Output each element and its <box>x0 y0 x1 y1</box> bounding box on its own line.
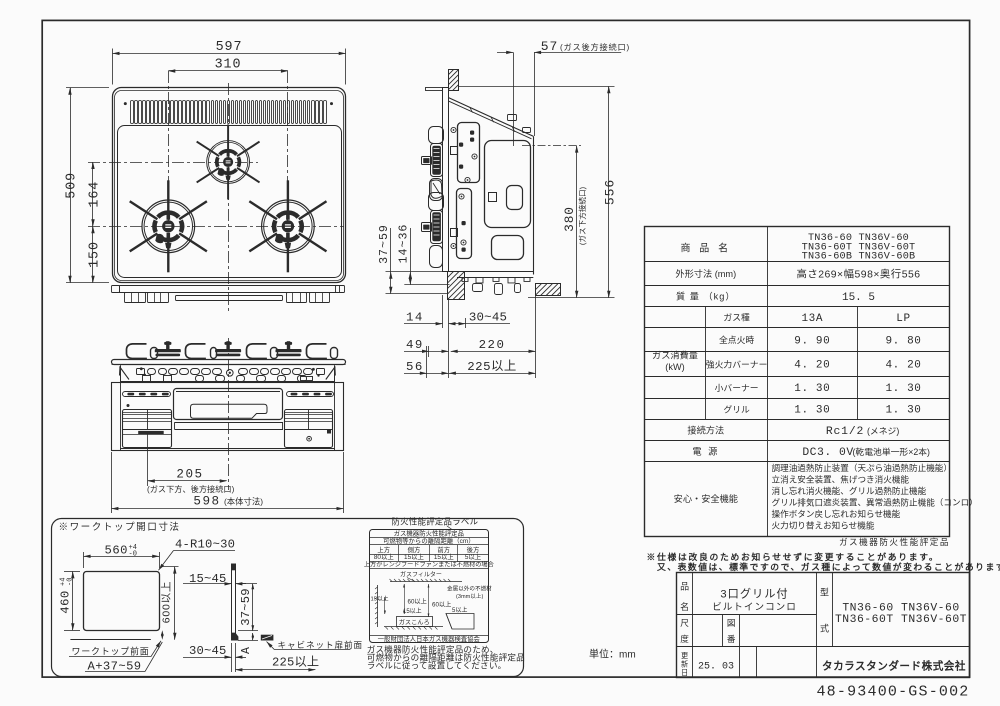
svg-text:TN36-60 TN36V-60: TN36-60 TN36V-60 <box>842 603 959 615</box>
svg-text:56: 56 <box>406 360 424 374</box>
svg-text:9. 90: 9. 90 <box>794 336 830 348</box>
svg-text:(メネジ): (メネジ) <box>867 426 899 436</box>
svg-text:接続方法: 接続方法 <box>687 425 724 436</box>
svg-text:高さ269×幅598×奥行556: 高さ269×幅598×奥行556 <box>796 268 920 281</box>
svg-text:グリル: グリル <box>723 404 750 415</box>
svg-text:15以上: 15以上 <box>371 595 389 603</box>
svg-text:48-93400-GS-002: 48-93400-GS-002 <box>816 684 969 701</box>
svg-text:番: 番 <box>727 633 736 644</box>
svg-text:又、表数値は、標準ですので、ガス種によって数値が変わることが: 又、表数値は、標準ですので、ガス種によって数値が変わることがあります。 <box>657 561 1000 572</box>
svg-text:380: 380 <box>562 206 577 232</box>
svg-text:※仕様は改良のためお知らせせずに変更することがあります。: ※仕様は改良のためお知らせせずに変更することがあります。 <box>647 551 940 562</box>
svg-text:5以上: 5以上 <box>452 606 467 614</box>
svg-text:日: 日 <box>681 668 688 677</box>
svg-text:560: 560 <box>105 544 128 558</box>
svg-text:調理油過熱防止装置（天ぷら油過熱防止機能）: 調理油過熱防止装置（天ぷら油過熱防止機能） <box>772 462 952 473</box>
svg-text:A: A <box>240 647 253 654</box>
svg-text:ガス消費量: ガス消費量 <box>652 350 698 361</box>
svg-text:30~45: 30~45 <box>469 311 507 325</box>
svg-text:小バーナー: 小バーナー <box>715 383 759 393</box>
svg-text:防火性能評定品ラベル: 防火性能評定品ラベル <box>392 517 479 527</box>
svg-text:型: 型 <box>820 588 829 598</box>
svg-text:30~45: 30~45 <box>189 644 227 658</box>
svg-text:グリル排気口遮炎装置、異常過熱防止機能（コンロ）: グリル排気口遮炎装置、異常過熱防止機能（コンロ） <box>772 497 978 508</box>
svg-text:消し忘れ消火機能、グリル過熱防止機能: 消し忘れ消火機能、グリル過熱防止機能 <box>772 485 927 496</box>
svg-text:TN36-60T TN36V-60T: TN36-60T TN36V-60T <box>835 614 967 626</box>
svg-text:15以上: 15以上 <box>404 552 424 561</box>
svg-text:3口グリル付: 3口グリル付 <box>720 587 788 601</box>
svg-text:図: 図 <box>727 618 736 628</box>
svg-text:5以上: 5以上 <box>465 552 482 561</box>
svg-text:49: 49 <box>406 338 424 352</box>
svg-text:商 品 名: 商 品 名 <box>681 242 732 255</box>
svg-text:上方がレンジフードファンまたは不燃材の場合: 上方がレンジフードファンまたは不燃材の場合 <box>364 560 494 568</box>
svg-text:(3mm以上): (3mm以上) <box>456 592 483 600</box>
svg-text:1. 30: 1. 30 <box>885 383 921 395</box>
svg-text:操作ボタン戻し忘れお知らせ機能: 操作ボタン戻し忘れお知らせ機能 <box>772 508 901 519</box>
svg-text:側方: 側方 <box>408 545 421 554</box>
svg-text:Rc1/2: Rc1/2 <box>826 426 864 438</box>
svg-text:(本体寸法): (本体寸法) <box>224 496 263 506</box>
svg-text:205: 205 <box>176 468 203 482</box>
svg-text:ガス種: ガス種 <box>723 313 750 323</box>
svg-text:14: 14 <box>406 311 424 325</box>
svg-text:25. 03: 25. 03 <box>698 662 734 673</box>
svg-text:57: 57 <box>541 39 558 54</box>
svg-text:4. 20: 4. 20 <box>885 360 921 372</box>
svg-text:TN36-60B TN36V-60B: TN36-60B TN36V-60B <box>802 252 916 263</box>
svg-text:1. 30: 1. 30 <box>794 405 830 417</box>
svg-text:15以上: 15以上 <box>434 552 454 561</box>
svg-text:(ガス後方接続口): (ガス後方接続口) <box>560 42 630 52</box>
svg-text:一般財団法人日本ガス機器検査協会: 一般財団法人日本ガス機器検査協会 <box>378 634 481 643</box>
svg-text:60以上: 60以上 <box>408 597 427 605</box>
svg-text:LP: LP <box>896 313 910 325</box>
svg-text:15. 5: 15. 5 <box>842 292 875 304</box>
svg-text:キャビネット扉前面: キャビネット扉前面 <box>278 639 363 650</box>
svg-text:ワークトップ前面: ワークトップ前面 <box>72 645 150 656</box>
svg-text:(乾電池単一形×2本): (乾電池単一形×2本) <box>853 446 931 457</box>
svg-text:度: 度 <box>680 633 689 644</box>
svg-text:9. 80: 9. 80 <box>885 336 921 348</box>
svg-text:尺: 尺 <box>680 618 689 628</box>
svg-text:ガスこんろ: ガスこんろ <box>399 619 430 627</box>
svg-text:(ガス下方接続口): (ガス下方接続口) <box>577 186 587 245</box>
svg-text:ビルトインコンロ: ビルトインコンロ <box>712 602 797 613</box>
svg-text:火力切り替えお知らせ機能: 火力切り替えお知らせ機能 <box>772 520 875 531</box>
svg-text:式: 式 <box>820 623 829 634</box>
svg-text:310: 310 <box>215 58 242 73</box>
svg-text:後方: 後方 <box>467 545 480 554</box>
svg-text:80以上: 80以上 <box>374 552 394 561</box>
svg-text:立消え安全装置、焦げつき消火機能: 立消え安全装置、焦げつき消火機能 <box>772 474 910 485</box>
svg-text:電 源: 電 源 <box>692 447 719 457</box>
svg-text:ガス機器防火性能評定品: ガス機器防火性能評定品 <box>394 528 464 537</box>
svg-text:ラベルに従って設置してください。: ラベルに従って設置してください。 <box>367 659 507 670</box>
svg-text:150: 150 <box>88 241 103 268</box>
svg-text:220: 220 <box>479 338 506 352</box>
svg-text:上方: 上方 <box>377 545 390 554</box>
svg-text:164: 164 <box>88 181 103 208</box>
svg-text:-0: -0 <box>129 551 137 559</box>
svg-text:13A: 13A <box>801 313 823 325</box>
svg-text:597: 597 <box>216 40 243 55</box>
svg-text:14~36: 14~36 <box>397 224 410 264</box>
svg-text:単位：mm: 単位：mm <box>589 648 636 661</box>
svg-text:37~59: 37~59 <box>239 588 253 626</box>
svg-text:600以上: 600以上 <box>161 581 173 624</box>
svg-text:60以上: 60以上 <box>432 601 451 609</box>
svg-text:(ガス下方、後方接続口): (ガス下方、後方接続口) <box>147 484 235 494</box>
svg-text:名: 名 <box>680 601 689 612</box>
svg-text:225以上: 225以上 <box>272 655 319 670</box>
svg-text:タカラスタンダード株式会社: タカラスタンダード株式会社 <box>822 660 966 673</box>
svg-text:4-R10~30: 4-R10~30 <box>175 538 235 552</box>
svg-text:15以上: 15以上 <box>403 607 422 615</box>
svg-text:全点火時: 全点火時 <box>719 334 754 345</box>
svg-text:-0: -0 <box>67 578 75 586</box>
svg-text:460: 460 <box>59 590 73 613</box>
svg-text:可燃物等からの離隔距離（cm）: 可燃物等からの離隔距離（cm） <box>383 536 475 545</box>
svg-text:ガスフィルター: ガスフィルター <box>400 571 442 579</box>
svg-text:37~59: 37~59 <box>378 224 391 264</box>
svg-text:品: 品 <box>680 582 689 592</box>
svg-text:DC3. 0V: DC3. 0V <box>802 447 853 459</box>
svg-text:更: 更 <box>681 651 688 660</box>
svg-text:ガス機器防火性能評定品: ガス機器防火性能評定品 <box>839 536 950 547</box>
svg-text:安心・安全機能: 安心・安全機能 <box>674 493 738 504</box>
svg-text:前方: 前方 <box>437 545 450 554</box>
svg-text:強火力バーナー: 強火力バーナー <box>706 359 768 370</box>
svg-text:598: 598 <box>193 495 220 509</box>
svg-text:509: 509 <box>65 172 80 199</box>
svg-text:1. 30: 1. 30 <box>794 383 830 395</box>
svg-text:556: 556 <box>603 179 618 205</box>
svg-text:(kW): (kW) <box>665 362 684 372</box>
svg-text:金属以外の不燃材: 金属以外の不燃材 <box>447 585 492 593</box>
svg-text:225以上: 225以上 <box>467 359 517 374</box>
svg-text:※ワークトップ開口寸法: ※ワークトップ開口寸法 <box>59 521 181 533</box>
svg-text:質 量 （kg）: 質 量 （kg） <box>676 291 736 302</box>
svg-text:4. 20: 4. 20 <box>794 360 830 372</box>
svg-text:1. 30: 1. 30 <box>885 405 921 417</box>
svg-text:外形寸法 (mm): 外形寸法 (mm) <box>675 268 736 279</box>
